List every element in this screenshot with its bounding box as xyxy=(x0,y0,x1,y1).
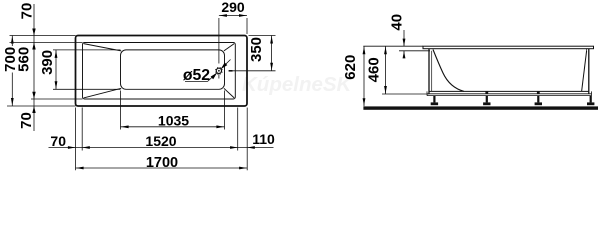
svg-text:70: 70 xyxy=(50,133,66,149)
svg-text:290: 290 xyxy=(221,0,245,15)
svg-text:1035: 1035 xyxy=(158,113,189,129)
svg-text:70: 70 xyxy=(19,3,36,20)
svg-text:620: 620 xyxy=(342,55,359,80)
svg-text:KúpelneSK: KúpelneSK xyxy=(242,73,354,96)
svg-text:1520: 1520 xyxy=(145,133,176,149)
svg-text:460: 460 xyxy=(365,57,382,82)
svg-text:ø52: ø52 xyxy=(183,67,210,84)
svg-text:390: 390 xyxy=(39,50,56,75)
svg-text:350: 350 xyxy=(248,37,265,62)
svg-text:110: 110 xyxy=(252,131,275,147)
svg-text:70: 70 xyxy=(18,112,35,129)
svg-text:40: 40 xyxy=(388,14,405,31)
svg-text:560: 560 xyxy=(15,47,32,72)
svg-text:1700: 1700 xyxy=(146,155,178,171)
